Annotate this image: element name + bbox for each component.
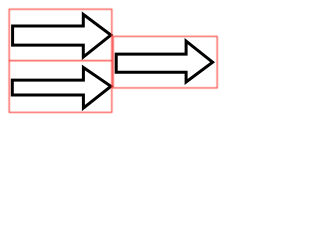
- block arrow top-left: [13, 14, 111, 57]
- red rectangle bottom-left: [9, 61, 112, 113]
- red rectangle top-left: [9, 9, 112, 60]
- block arrow bottom-left: [12, 68, 111, 109]
- block arrow right: [116, 41, 212, 82]
- red rectangle right: [113, 36, 217, 88]
